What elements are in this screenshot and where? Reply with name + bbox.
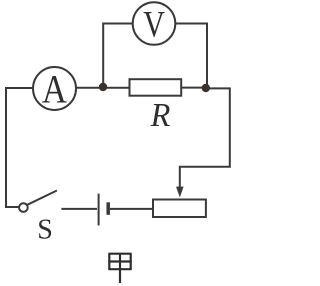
svg-text:A: A — [42, 68, 67, 112]
svg-text:R: R — [150, 96, 171, 134]
svg-text:S: S — [37, 215, 53, 246]
svg-text:V: V — [143, 5, 165, 45]
